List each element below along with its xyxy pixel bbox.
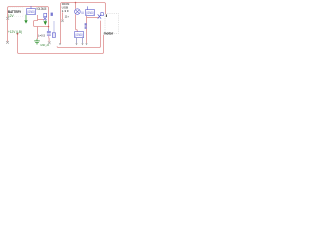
svg-text:(L): (L) xyxy=(81,11,84,15)
svg-text:VOLTAGE: VOLTAGE xyxy=(36,7,47,11)
svg-text:12V: 12V xyxy=(8,14,14,18)
svg-text:11+: 11+ xyxy=(65,14,70,18)
svg-text:1.3 F: 1.3 F xyxy=(62,9,69,13)
svg-text:(GND): (GND) xyxy=(27,10,35,14)
svg-text:motor: motor xyxy=(104,31,114,35)
svg-text:L=0.5: L=0.5 xyxy=(38,33,45,37)
svg-text:+12V (LB): +12V (LB) xyxy=(8,30,22,34)
svg-text:GND_A1: GND_A1 xyxy=(40,43,49,47)
svg-text:(GND): (GND) xyxy=(75,33,83,37)
svg-text:(GND): (GND) xyxy=(86,11,94,15)
